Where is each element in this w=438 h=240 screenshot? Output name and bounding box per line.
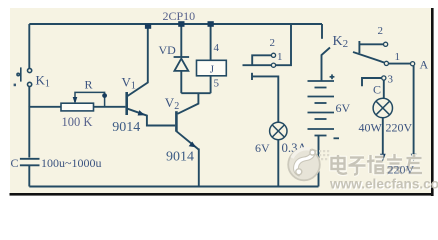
svg-text:R: R: [85, 78, 93, 92]
wire: relay pin 4: [210, 24, 212, 60]
wire: left rail top to K1: [28, 24, 30, 69]
wire: relay pin 5: [210, 76, 212, 93]
wire: V2 collector riser: [178, 93, 199, 113]
wire: V1 emitter to V2 base: [128, 109, 175, 126]
diode VD: [174, 57, 190, 71]
watermark logo circle: [288, 149, 329, 181]
wire: V2 emitter slant: [177, 131, 199, 149]
transistor V1: [125, 92, 128, 115]
svg-text:9014: 9014: [112, 120, 140, 135]
svg-text:A: A: [420, 58, 429, 72]
switch K2 contact 3 circle: [382, 76, 386, 80]
svg-text:6V: 6V: [336, 101, 351, 115]
wire: relay contact blade lead: [243, 64, 272, 66]
wire: capacitor to bottom rail corner: [28, 166, 30, 187]
svg-text:100 K: 100 K: [62, 115, 93, 129]
switch K2 contact 2 circle: [384, 42, 388, 46]
label battery plus: [330, 74, 335, 79]
node: junction relay pin4 on top rail: [208, 21, 214, 27]
svg-text:J: J: [210, 64, 215, 76]
wire: diode anode down: [180, 71, 182, 93]
svg-text:9014: 9014: [166, 150, 194, 165]
schematic paper background: [10, 8, 431, 193]
relay contact 1 circle: [271, 63, 275, 67]
wire: tee to resistor: [29, 106, 61, 108]
wire: contact 3 to lamp EL2: [383, 80, 385, 98]
svg-text:2CP10: 2CP10: [163, 9, 196, 23]
switch K2 contact C1 circle: [384, 61, 388, 65]
pushbutton K1: [17, 67, 32, 86]
wire: K2 contact 2 terminal bar: [358, 41, 360, 53]
svg-text:C: C: [373, 83, 381, 97]
wire: node A drop to 220V rail: [413, 66, 415, 157]
svg-text:4: 4: [214, 42, 220, 54]
svg-text:1: 1: [395, 51, 401, 63]
wire: lamp branch terminal bar: [251, 73, 253, 80]
scan speck: [14, 84, 16, 87]
wire: battery top lead / K2 blade: [322, 48, 331, 82]
transistor V2 emitter arrowhead: [189, 142, 197, 148]
wire: K2 contact 3 lead: [362, 78, 382, 86]
switch node A circle: [411, 62, 415, 66]
watermark CJK characters (drawn strokes): [332, 154, 423, 175]
svg-text:100u~1000u: 100u~1000u: [41, 156, 102, 170]
label battery minus: [334, 137, 340, 139]
svg-text:2: 2: [270, 37, 276, 49]
wire: contact C1 to node A: [389, 63, 411, 65]
wire: lamp branch lead: [252, 76, 278, 122]
relay contact 2 circle: [271, 53, 275, 57]
wire: battery bottom lead: [318, 136, 320, 187]
220V source arrowhead right: [411, 154, 417, 162]
svg-text:VD: VD: [159, 43, 177, 57]
transistor V1 emitter arrowhead: [138, 110, 145, 115]
svg-text:1: 1: [277, 51, 283, 63]
wire: diode/relay bottom connector: [181, 92, 210, 94]
wire: diode branch from top rail: [180, 24, 182, 57]
node: wiper junction dot: [102, 93, 107, 98]
wire: V2 emitter to bottom rail: [198, 149, 200, 187]
wire: K2 blade to contact C1: [353, 52, 384, 63]
potentiometer wiper bracket: [75, 92, 105, 106]
svg-text:www.elecfans.com: www.elecfans.com: [329, 177, 438, 192]
svg-text:220V: 220V: [388, 163, 415, 177]
220V source arrowhead left: [380, 154, 386, 162]
svg-text:6V: 6V: [255, 141, 270, 155]
wire: left rail down to capacitor: [28, 107, 30, 158]
svg-text:40W: 40W: [359, 121, 383, 135]
svg-text:220V: 220V: [386, 121, 413, 135]
wire: K1 bottom to resistor tee: [28, 87, 30, 108]
wiper arrowhead: [73, 97, 78, 104]
wire: V1 collector riser: [127, 24, 148, 97]
svg-text:3: 3: [388, 74, 394, 86]
wire: K2 contact 2 lead: [359, 43, 383, 45]
battery GB 6V: [308, 81, 335, 136]
relay coil J: [197, 60, 227, 76]
capacitor C: [20, 159, 40, 166]
node: junction V1 collector on top rail: [145, 24, 151, 29]
lamp EL2 40W: [373, 98, 392, 117]
svg-text:5: 5: [214, 78, 220, 90]
wire: relay contact 1 riser to top rail: [276, 24, 291, 65]
svg-text:C: C: [11, 156, 19, 170]
wire: top supply rail: [29, 23, 322, 25]
node: junction diode on top rail: [178, 21, 184, 27]
wire: resistor to V1 base: [94, 106, 126, 108]
wire: relay contact 2 lead: [252, 55, 271, 65]
wire: K2 fixed terminal stub: [321, 24, 323, 39]
transistor V2: [175, 111, 178, 132]
wire: lamp EL1 bottom lead: [277, 140, 279, 187]
wire: bottom rail: [29, 186, 318, 188]
svg-text:2: 2: [378, 25, 384, 37]
wire: lamp EL2 bottom to 220V: [382, 118, 384, 157]
lamp EL1 6V: [270, 122, 287, 139]
resistor R 100K: [61, 103, 94, 111]
